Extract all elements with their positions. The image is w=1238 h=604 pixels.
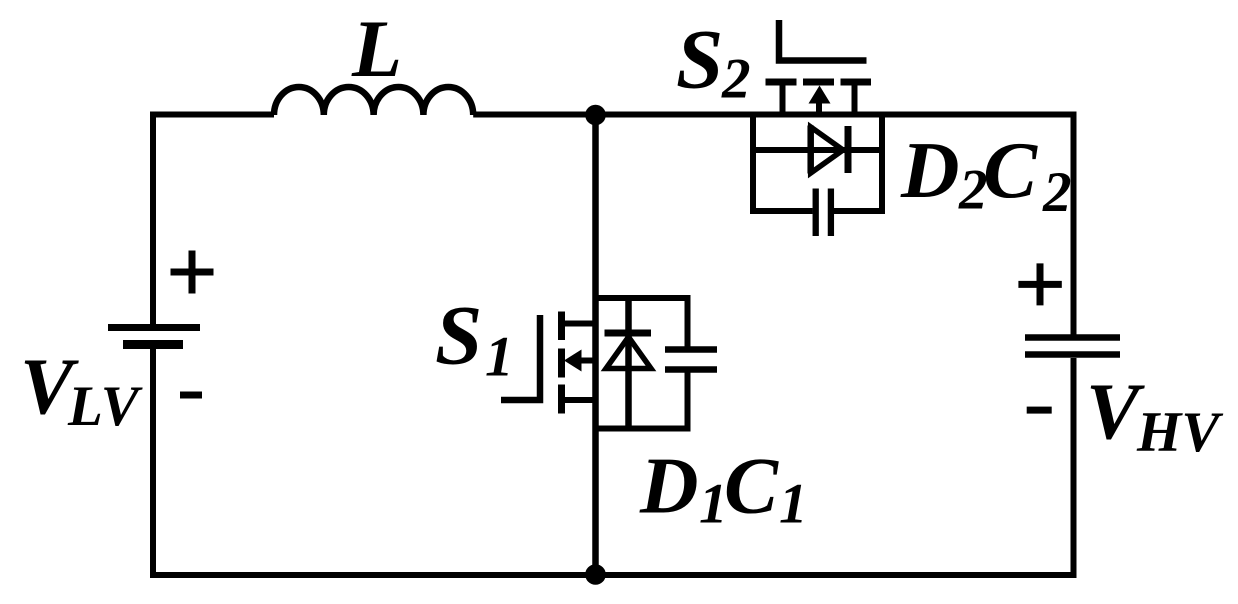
minus sign of V_HV [1027, 407, 1052, 414]
svg-text:S: S [676, 13, 723, 107]
svg-text:C: C [983, 125, 1038, 215]
box around D1 C1: top edge and right edge upper [593, 298, 688, 349]
transistor S1 gate lead and gate bar [501, 315, 540, 400]
capacitor C2 right plate [828, 189, 834, 237]
transistor S1 body arrow head [564, 350, 582, 372]
transistor S1 body arrow shaft [578, 358, 596, 364]
transistor S2 drain lead [852, 85, 858, 115]
inductor L [274, 87, 473, 115]
capacitor C1 top plate [665, 346, 717, 353]
transistor S2 source lead [780, 85, 786, 115]
svg-text:2: 2 [1042, 161, 1072, 224]
diode D1 branch wire [625, 298, 632, 429]
capacitor V_HV bottom plate [1025, 351, 1120, 358]
minus sign of V_LV [180, 392, 202, 399]
transistor S1 channel dashes [558, 312, 565, 414]
diode D1 triangle [606, 337, 651, 369]
wire: left side up from V_LV plus plate, across top to inductor [153, 115, 274, 325]
svg-text:1: 1 [779, 473, 808, 536]
svg-text:D: D [639, 441, 699, 531]
voltage source V_LV battery short plate [123, 340, 183, 349]
capacitor V_HV top plate [1025, 334, 1120, 341]
transistor S2 gate lead and gate bar [779, 20, 867, 61]
diode D2 cathode bar [845, 126, 852, 173]
wire: center vertical from node A to node B [592, 112, 599, 576]
wire: inductor to top-right corner, down to V_HV plate [473, 115, 1073, 335]
box around D2 C2: left edge and bottom edge left part [753, 112, 813, 212]
diode D1 cathode bar [605, 330, 652, 337]
transistor S2 body arrow head [809, 86, 831, 104]
capacitor C2 left plate [813, 189, 819, 237]
transistor S2 body arrow shaft [816, 103, 822, 117]
svg-text:S: S [435, 289, 482, 383]
diode D2 anode bar (triangle base line) [807, 126, 814, 174]
transistor S1 drain lead [565, 321, 596, 327]
plus sign of V_HV [1018, 263, 1061, 305]
svg-text:D: D [900, 125, 960, 215]
plus sign of V_LV [171, 251, 214, 294]
diode D2 branch wire [753, 147, 882, 153]
node B junction dot (bottom) [585, 564, 606, 585]
box around D1 C1: bottom edge and right edge lower [593, 370, 688, 429]
wire: bottom rail from V_LV down-around to V_HV [153, 349, 1074, 575]
node A junction dot (top) [585, 105, 606, 126]
capacitor C1 bottom plate [665, 366, 717, 373]
svg-text:LV: LV [67, 375, 143, 438]
voltage source V_LV battery long plate [108, 324, 200, 331]
transistor S2 channel dashes [766, 79, 872, 86]
svg-text:C: C [724, 441, 779, 531]
svg-text:2: 2 [721, 48, 751, 111]
transistor S1 source lead [565, 397, 596, 403]
svg-text:HV: HV [1136, 401, 1223, 464]
svg-text:1: 1 [485, 326, 514, 389]
diode D2 triangle [811, 127, 843, 173]
box around D2 C2: right edge and bottom edge right part [834, 112, 882, 212]
svg-text:L: L [351, 3, 402, 94]
